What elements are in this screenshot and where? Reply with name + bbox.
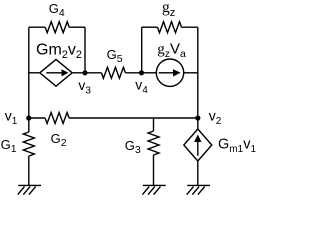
svg-text:G5: G5	[107, 47, 123, 65]
resistor G5 (between v3 and v4)	[85, 67, 142, 78]
svg-text:v1: v1	[5, 107, 18, 127]
ground (under G3)	[142, 185, 165, 194]
resistor G1 (from v1 down to ground)	[23, 118, 34, 185]
svg-text:v4: v4	[135, 77, 148, 97]
svg-text:G4: G4	[49, 1, 65, 19]
wire: from v4 to gzVa source	[142, 72, 157, 74]
wire: from Gm2v2 right vertex to node v3	[72, 72, 85, 74]
wire: branch from left vertical to Gm2v2 source	[29, 72, 40, 74]
resistor G2 (on bottom wire)	[45, 113, 69, 124]
wire: from Gm1v1 source down to ground	[197, 161, 199, 185]
svg-text:gzVa: gzVa	[157, 41, 186, 61]
svg-text:v2: v2	[209, 107, 222, 127]
wire: gz loop left vertical from v4 up	[141, 27, 143, 73]
node v3 (junction dot)	[82, 70, 87, 75]
node v4 (junction dot)	[139, 70, 144, 75]
wire: from v2 down to Gm1v1 source	[197, 118, 199, 129]
wire: left vertical from v1 up to top-left corner	[28, 27, 30, 118]
dependent current source Gm1V1 (diamond, arrow up)	[184, 129, 212, 161]
resistor G4 (top wire of left loop with zigzag)	[29, 22, 85, 33]
wire: bottom horizontal from G2 to v2	[69, 117, 198, 119]
resistor gz (top wire of right loop with zigzag)	[142, 22, 198, 33]
resistor G3 (from bottom wire down to ground)	[148, 118, 159, 185]
svg-text:Gm1v1: Gm1v1	[218, 136, 256, 155]
svg-text:Gm2v2: Gm2v2	[36, 42, 82, 61]
ground (under G1)	[18, 185, 41, 194]
wire: right vertical of left loop down to node v3	[84, 27, 86, 73]
node v2 (junction dot)	[195, 115, 200, 120]
ground (under Gm1v1)	[187, 185, 210, 194]
dependent current source gzVa (circle, arrow right)	[156, 59, 183, 86]
wire: bottom horizontal from v1 toward G2	[29, 117, 45, 119]
wire: from gzVa source to right vertical	[184, 72, 198, 74]
dependent current source Gm2V2 (diamond, arrow right)	[40, 59, 72, 86]
wire: gz loop right vertical down to v2	[197, 27, 199, 118]
svg-text:G3: G3	[125, 138, 141, 156]
svg-text:gz: gz	[162, 0, 175, 19]
node v1 (junction dot)	[26, 115, 31, 120]
svg-text:G1: G1	[1, 137, 17, 155]
svg-text:v3: v3	[78, 77, 91, 97]
svg-text:G2: G2	[51, 131, 67, 149]
